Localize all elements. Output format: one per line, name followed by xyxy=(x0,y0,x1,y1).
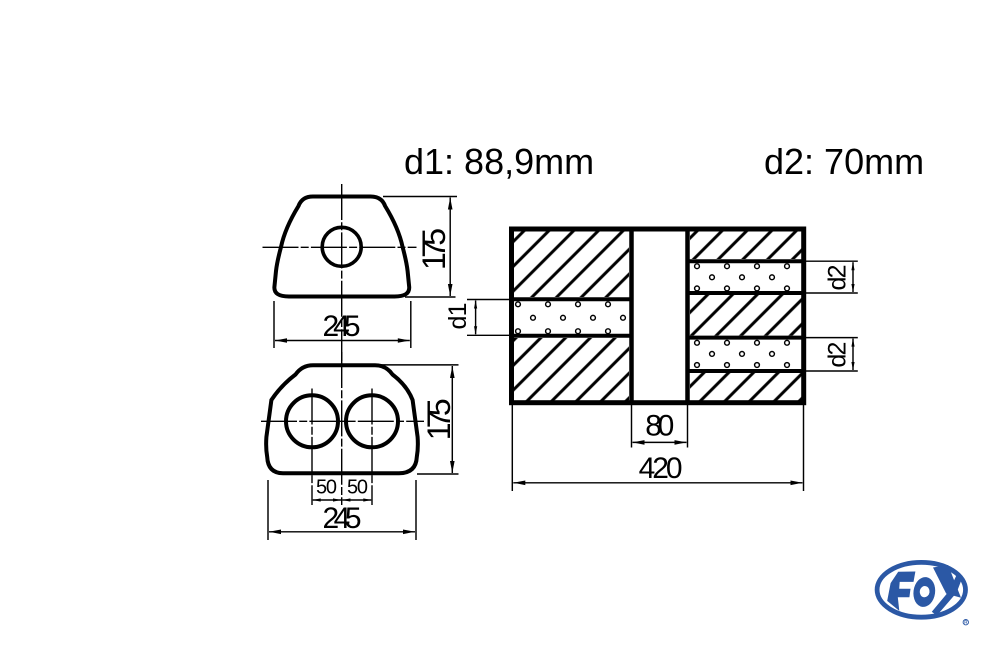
hole circle fig1 xyxy=(322,227,361,266)
pipe wall d2 lower band top xyxy=(688,336,804,340)
svg-text:d1: 88,9mm: d1: 88,9mm xyxy=(404,141,594,182)
pipe wall d1 band top xyxy=(512,297,632,301)
extension line right 245 fig1 xyxy=(410,301,412,348)
centerline vertical left pipe fig2 xyxy=(311,389,313,506)
hatched region left-top xyxy=(514,232,629,298)
dimension line 175 fig1 xyxy=(449,198,451,297)
extension line d2 upper bottom xyxy=(806,292,858,294)
svg-text:80: 80 xyxy=(645,409,674,442)
pipe wall d1 band bottom xyxy=(512,334,632,338)
extension line right 245 fig2 xyxy=(415,480,417,540)
extension line top 175 fig1 xyxy=(383,196,457,198)
svg-text:d2: d2 xyxy=(824,265,852,291)
extension line d2 upper top xyxy=(806,260,858,262)
logo letter X xyxy=(932,565,963,616)
hatched region right-middle xyxy=(690,295,802,336)
logo letter O xyxy=(912,576,938,609)
extension line left 245 fig1 xyxy=(273,301,275,348)
logo ellipse ring xyxy=(877,562,965,617)
perforation dots d1 band xyxy=(516,302,626,334)
centerline vertical right pipe fig2 xyxy=(371,389,373,506)
centerline vertical fig1 xyxy=(341,184,343,361)
dimension line 420 xyxy=(513,482,802,484)
extension line d1 lower xyxy=(467,334,512,336)
extension line 420 left xyxy=(511,405,513,491)
extension line d2 lower bottom xyxy=(806,370,858,372)
logo letter F xyxy=(887,572,915,611)
centerline horizontal fig1 xyxy=(263,246,417,248)
svg-text:175: 175 xyxy=(416,228,452,270)
pipe wall d2 upper band top xyxy=(688,259,804,263)
section outer body rectangle xyxy=(512,229,804,403)
dimension line 50 left xyxy=(313,499,341,501)
dimension line d1 xyxy=(475,301,477,335)
dimension line 245 fig1 xyxy=(275,340,410,342)
pipe hole left fig2 xyxy=(286,395,338,447)
hatched region left-bottom xyxy=(514,338,629,401)
extension line bottom 175 fig2 xyxy=(417,473,459,475)
extension line top 175 fig2 xyxy=(380,364,459,366)
pipe wall d2 upper band bottom xyxy=(688,291,804,295)
svg-text:420: 420 xyxy=(639,452,683,485)
trapezoid body fig1 xyxy=(274,197,409,297)
svg-text:d2: 70mm: d2: 70mm xyxy=(764,141,924,182)
svg-text:50: 50 xyxy=(347,477,368,499)
center pipe wall left xyxy=(629,229,634,403)
extension line 80 right xyxy=(687,405,689,448)
svg-text:50: 50 xyxy=(316,477,337,499)
extension line bottom 175 fig1 xyxy=(405,296,456,298)
svg-text:245: 245 xyxy=(323,310,361,343)
perforation dots d2 upper band xyxy=(695,264,790,291)
pipe hole right fig2 xyxy=(346,395,398,447)
centerline vertical middle fig2 xyxy=(341,352,343,505)
dimension line 80 xyxy=(633,441,687,443)
svg-text:d2: d2 xyxy=(824,342,852,368)
extension line d1 upper xyxy=(467,299,512,301)
perforation dots d2 lower band xyxy=(695,340,790,367)
dimension line 50 right xyxy=(342,499,371,501)
pipe wall d2 lower band bottom xyxy=(688,369,804,373)
hatched region right-top xyxy=(690,232,802,260)
hatched region right-bottom xyxy=(690,373,802,401)
extension line 80 left xyxy=(631,405,633,448)
centerline horizontal fig2 xyxy=(261,420,424,422)
extension line d2 lower top xyxy=(806,337,858,339)
dimension line 245 fig2 xyxy=(269,531,415,533)
extension line 420 right xyxy=(803,405,805,491)
trapezoid body fig2 xyxy=(266,365,418,473)
svg-text:245: 245 xyxy=(323,502,362,535)
dimension line d2 lower xyxy=(852,339,854,370)
logo registered mark xyxy=(963,620,968,625)
center pipe wall right xyxy=(685,229,690,403)
svg-text:175: 175 xyxy=(421,398,457,440)
extension line left 245 fig2 xyxy=(267,480,269,540)
dimension line 175 fig2 xyxy=(451,366,453,473)
dimension line d2 upper xyxy=(852,262,854,292)
svg-text:d1: d1 xyxy=(444,303,472,330)
